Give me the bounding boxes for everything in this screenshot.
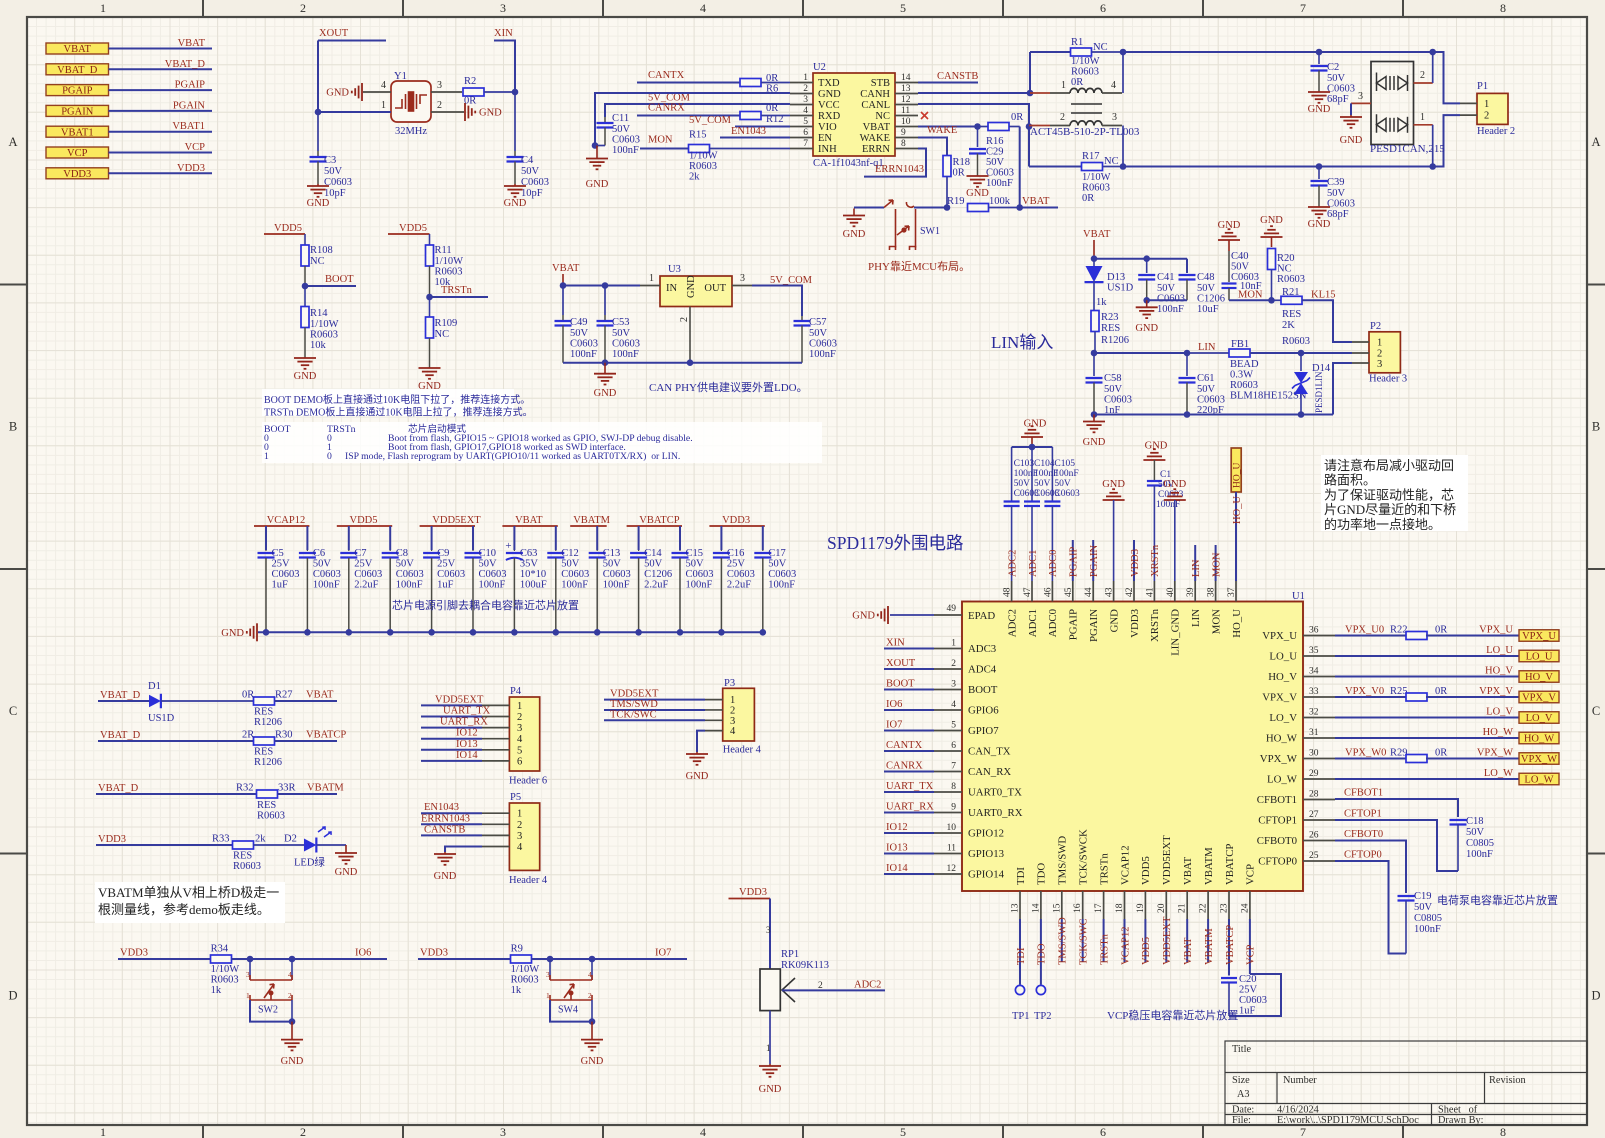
resistor R15	[689, 145, 710, 153]
svg-text:C18: C18	[1466, 816, 1484, 827]
svg-text:+: +	[505, 540, 511, 552]
svg-text:R21: R21	[1282, 287, 1300, 298]
svg-text:VBAT: VBAT	[515, 515, 543, 526]
svg-text:VDD5: VDD5	[274, 223, 302, 234]
svg-text:4: 4	[700, 1125, 706, 1138]
wire decoupling ground rail	[258, 631, 763, 633]
svg-text:VPX_U: VPX_U	[1479, 625, 1513, 636]
svg-text:C0603: C0603	[1054, 489, 1080, 499]
svg-text:PGAIN: PGAIN	[61, 107, 94, 118]
pin 6 of U2 (EN)	[790, 137, 813, 139]
svg-text:17: 17	[1094, 903, 1104, 913]
junction cap ground	[304, 629, 311, 636]
svg-text:5V_COM: 5V_COM	[770, 275, 813, 286]
svg-text:C0603: C0603	[354, 569, 382, 580]
wire VDD3 LED row	[96, 844, 232, 846]
ground GND at EPAD	[887, 606, 889, 624]
wire to P1 pin1	[1433, 52, 1460, 103]
svg-text:GND: GND	[818, 89, 841, 100]
junction XIN/R2	[512, 89, 519, 96]
resistor R23	[1091, 311, 1099, 332]
resistor R9	[511, 955, 532, 963]
svg-text:VBAT: VBAT	[306, 690, 334, 701]
pin 2 of P4	[482, 716, 509, 718]
junction cap ground	[718, 629, 725, 636]
wire R34 to IO6	[232, 958, 387, 960]
svg-text:1: 1	[517, 809, 522, 820]
junction rail C61	[1184, 411, 1191, 418]
svg-text:4: 4	[730, 726, 736, 737]
svg-text:GND: GND	[335, 867, 358, 878]
svg-text:WAKE: WAKE	[860, 133, 890, 144]
svg-text:VBATM: VBATM	[307, 783, 344, 794]
svg-text:IO14: IO14	[456, 750, 478, 761]
svg-text:EN1043: EN1043	[731, 126, 766, 137]
svg-text:XIN: XIN	[886, 638, 905, 649]
pin 19 of U1 (VDD5)	[1144, 891, 1146, 919]
svg-text:LED绿: LED绿	[294, 856, 325, 869]
junction cap ground	[635, 629, 642, 636]
svg-text:1: 1	[246, 991, 250, 1000]
svg-text:R1206: R1206	[254, 717, 282, 728]
wire U2 pin2 GND	[595, 93, 790, 146]
svg-text:50V: 50V	[1466, 827, 1485, 838]
svg-text:HO_V: HO_V	[1525, 672, 1553, 683]
svg-text:100uF: 100uF	[520, 580, 547, 591]
wire CFBOT1	[1335, 799, 1458, 817]
svg-text:ADC4: ADC4	[968, 664, 997, 676]
wire R17 line	[1029, 166, 1082, 168]
svg-text:TCK/SWC: TCK/SWC	[1079, 918, 1090, 965]
svg-text:2K: 2K	[1282, 320, 1295, 331]
svg-text:C0603: C0603	[272, 569, 300, 580]
resistor R12	[740, 112, 761, 120]
svg-text:VBAT: VBAT	[178, 38, 206, 49]
svg-text:C104: C104	[1034, 459, 1055, 469]
svg-text:1: 1	[1484, 99, 1489, 110]
svg-text:C14: C14	[644, 548, 662, 559]
svg-text:VCP: VCP	[185, 142, 206, 153]
svg-text:34: 34	[1309, 667, 1319, 677]
svg-text:46: 46	[1043, 587, 1053, 597]
svg-text:2k: 2k	[255, 834, 266, 845]
ground GND below C3	[317, 184, 319, 186]
capacitor C11	[604, 117, 606, 123]
svg-text:GND: GND	[1308, 104, 1331, 115]
wire P3 pin4 to GND	[697, 731, 705, 752]
wire U2 pin9 WAKE	[918, 138, 947, 156]
wire XOUT to U1	[884, 668, 934, 670]
svg-text:35V: 35V	[520, 559, 539, 570]
svg-text:OUT: OUT	[704, 283, 726, 294]
note drive loop (white box)	[1321, 455, 1468, 531]
port HO_W	[1519, 732, 1559, 744]
svg-text:GND: GND	[843, 229, 866, 240]
svg-text:50V: 50V	[1054, 479, 1071, 489]
svg-text:VPX_U: VPX_U	[1522, 631, 1556, 642]
svg-text:50V: 50V	[396, 559, 415, 570]
svg-text:50V: 50V	[612, 328, 631, 339]
svg-text:ADC2: ADC2	[1007, 550, 1018, 577]
wire CFTOP1	[1335, 820, 1458, 871]
svg-text:BEAD: BEAD	[1230, 359, 1259, 370]
junction BOOT	[302, 283, 309, 290]
svg-text:VDD3: VDD3	[722, 515, 750, 526]
svg-text:VDD5EXT: VDD5EXT	[610, 689, 659, 700]
svg-text:PGAIP: PGAIP	[1068, 609, 1080, 640]
svg-text:3: 3	[803, 95, 808, 105]
svg-text:IO7: IO7	[886, 720, 902, 731]
note VBATM measurement	[95, 882, 285, 923]
junction cap ground	[760, 629, 767, 636]
ground GND below R14	[304, 357, 306, 358]
svg-text:ADC1: ADC1	[1027, 609, 1039, 637]
wire CANL	[918, 104, 1029, 127]
capacitor C18	[1450, 819, 1467, 821]
svg-text:2: 2	[437, 100, 442, 111]
svg-text:ADC3: ADC3	[968, 643, 996, 655]
junction PESD pin1	[1429, 163, 1436, 170]
svg-text:VDD3: VDD3	[63, 169, 91, 180]
wire ground rail U3	[563, 362, 802, 364]
wire R6 to U2 pin1	[761, 82, 790, 84]
junction rail C53	[602, 359, 609, 366]
svg-text:R23: R23	[1101, 312, 1119, 323]
svg-text:1/10W: 1/10W	[435, 256, 464, 267]
junction D14 top	[1298, 350, 1305, 357]
wire LO_W	[1335, 778, 1519, 780]
svg-text:2.2uF: 2.2uF	[354, 580, 378, 591]
svg-text:GND: GND	[1102, 479, 1125, 490]
junction cap ground	[387, 629, 394, 636]
svg-text:C48: C48	[1197, 272, 1215, 283]
svg-text:13: 13	[1011, 903, 1021, 913]
svg-text:VBAT_D: VBAT_D	[98, 783, 139, 794]
capacitor C63	[513, 550, 515, 551]
wire IO12 to P4	[421, 738, 482, 740]
wire VBAT to U3 pin1	[563, 285, 640, 287]
svg-text:C0603: C0603	[809, 339, 837, 350]
resistor R14	[304, 286, 306, 307]
svg-text:10k: 10k	[310, 340, 327, 351]
svg-text:C15: C15	[686, 548, 704, 559]
svg-text:NC: NC	[1277, 264, 1292, 275]
wire IO6 to U1	[884, 709, 934, 711]
svg-text:0R: 0R	[1071, 77, 1083, 88]
svg-text:CFTOP1: CFTOP1	[1344, 809, 1382, 820]
wire IO14 to P4	[421, 760, 482, 762]
svg-text:LIN: LIN	[1190, 609, 1202, 627]
wire R1 line to C2	[1123, 51, 1319, 53]
svg-text:50V: 50V	[479, 559, 498, 570]
svg-text:18: 18	[1115, 903, 1125, 913]
port HO_V	[1519, 671, 1559, 683]
ground GND at U1 pin40 (LIN_GND)	[1174, 499, 1176, 501]
wire net VBAT1	[109, 131, 213, 133]
wire BOOT to U1	[884, 689, 934, 691]
svg-text:R0603: R0603	[211, 975, 239, 986]
svg-text:CAN_RX: CAN_RX	[968, 766, 1011, 778]
junction C41 bottom	[1143, 297, 1150, 304]
svg-text:VBAT: VBAT	[64, 44, 92, 55]
svg-text:P3: P3	[724, 678, 735, 689]
ground GND below U3 rail	[604, 363, 606, 374]
svg-text:HO_V: HO_V	[1268, 671, 1297, 683]
svg-text:C0603: C0603	[612, 135, 640, 146]
svg-text:6: 6	[1100, 1, 1106, 15]
wire net VBATCP below U1	[1228, 919, 1230, 976]
svg-text:100nF: 100nF	[1156, 500, 1180, 510]
svg-text:2: 2	[730, 705, 735, 716]
svg-text:LO_U: LO_U	[1486, 645, 1513, 656]
svg-text:R14: R14	[310, 308, 328, 319]
pin 46 of U1 (ADC0)	[1051, 581, 1053, 602]
svg-text:1uF: 1uF	[272, 580, 289, 591]
pin 1 of U2 (TXD)	[790, 82, 813, 84]
svg-text:3: 3	[246, 970, 250, 979]
svg-text:HO_W: HO_W	[1483, 727, 1513, 738]
pin 43 of U1 (GND)	[1113, 581, 1115, 602]
svg-text:11: 11	[901, 106, 910, 116]
svg-text:SW1: SW1	[920, 226, 940, 237]
capacitor C7	[348, 550, 350, 551]
svg-text:LO_W: LO_W	[1524, 775, 1553, 786]
svg-text:50V: 50V	[1327, 188, 1346, 199]
svg-text:VPX_W: VPX_W	[1521, 754, 1557, 765]
svg-text:根测量线，参考demo板走线。: 根测量线，参考demo板走线。	[98, 902, 270, 917]
svg-text:LIN_GND: LIN_GND	[1170, 609, 1182, 656]
svg-text:GND: GND	[326, 88, 349, 99]
svg-text:8: 8	[951, 782, 956, 792]
pin 4 of P4	[482, 738, 509, 740]
svg-text:R34: R34	[211, 944, 229, 955]
svg-text:ERRN1043: ERRN1043	[875, 164, 924, 175]
capacitor C103	[1011, 447, 1013, 502]
svg-text:片GND尽量近的和下桥: 片GND尽量近的和下桥	[1324, 502, 1456, 517]
svg-text:C0805: C0805	[1466, 838, 1494, 849]
svg-text:25V: 25V	[437, 559, 456, 570]
svg-text:C0603: C0603	[1158, 490, 1184, 500]
pin 22 of U1 (VBATM)	[1207, 891, 1209, 919]
svg-text:CAN_TX: CAN_TX	[968, 746, 1011, 758]
pin 40 of U1 (LIN_GND)	[1174, 581, 1176, 602]
svg-text:1k: 1k	[1096, 297, 1107, 308]
svg-text:C12: C12	[561, 548, 579, 559]
svg-text:MON: MON	[1238, 290, 1263, 301]
pin 39 of U1 (LIN)	[1194, 581, 1196, 602]
switch SW2	[249, 959, 251, 980]
svg-text:MON: MON	[648, 135, 673, 146]
svg-text:14: 14	[901, 73, 911, 83]
wire IO14 to U1	[884, 873, 934, 875]
wire UART_TX to P4	[421, 716, 482, 718]
svg-text:20: 20	[1157, 903, 1167, 913]
svg-text:RES: RES	[254, 707, 273, 718]
junction R18/R19	[944, 204, 951, 211]
svg-text:GND: GND	[686, 771, 709, 782]
pin 3 of P4	[482, 727, 509, 729]
ground GND left of Y1	[361, 83, 363, 101]
svg-text:U2: U2	[813, 62, 826, 73]
svg-text:P1: P1	[1477, 81, 1488, 92]
svg-text:6: 6	[1100, 1125, 1106, 1138]
svg-text:29: 29	[1309, 769, 1319, 779]
pin 24 of U1 (VCP)	[1249, 891, 1251, 919]
wire VDD5EXT rail drops	[431, 526, 433, 550]
resistor R11	[426, 245, 434, 266]
pin 5 of U2 (VIO)	[790, 126, 813, 128]
svg-text:50V: 50V	[809, 328, 828, 339]
svg-text:C0603: C0603	[1157, 294, 1185, 305]
svg-text:VDD5EXT: VDD5EXT	[432, 515, 481, 526]
pin 7 of U1 (CAN_RX)	[934, 771, 962, 773]
svg-text:GND: GND	[1145, 441, 1168, 452]
wire VBAT rail drops	[513, 526, 515, 550]
svg-text:4: 4	[803, 106, 808, 116]
capacitor C57	[801, 316, 803, 321]
svg-text:GND: GND	[1024, 419, 1047, 430]
wire VPX_V0	[1335, 696, 1407, 698]
wire R1 line	[1030, 51, 1071, 53]
transformer ACT45B top coil	[1070, 88, 1102, 93]
svg-text:VBATM: VBATM	[573, 515, 610, 526]
wire net VBAT_D	[109, 68, 213, 70]
svg-text:LO_U: LO_U	[1269, 651, 1297, 663]
wiper arrow RP1	[782, 978, 795, 1002]
svg-text:XOUT: XOUT	[886, 658, 916, 669]
pin 41 of U1 (XRSTn)	[1153, 581, 1155, 602]
wire VDD3 rail drops	[720, 526, 722, 550]
wire VPX_W to port	[1426, 758, 1519, 760]
svg-text:GND: GND	[504, 198, 527, 209]
svg-text:ERRN1043: ERRN1043	[421, 813, 470, 824]
resistor R17	[1082, 163, 1103, 171]
wire R27 to VBAT	[275, 700, 338, 702]
pin 5 of P4	[482, 749, 509, 751]
svg-text:1k: 1k	[211, 985, 222, 996]
svg-text:3: 3	[766, 925, 771, 935]
ground GND below C39	[1318, 206, 1320, 207]
svg-text:1: 1	[381, 100, 386, 111]
ground GND right of Y1	[464, 103, 466, 121]
svg-text:21: 21	[1178, 903, 1188, 913]
svg-text:VBATM: VBATM	[1204, 928, 1215, 965]
svg-text:0R: 0R	[953, 168, 965, 179]
svg-text:3: 3	[500, 1125, 506, 1138]
svg-text:0R: 0R	[242, 690, 254, 701]
wire LIN stub (pin39)	[1194, 545, 1196, 581]
svg-text:路面积。: 路面积。	[1324, 473, 1376, 488]
wire IO7 to U1	[884, 730, 934, 732]
wire VBAT right	[1020, 207, 1058, 209]
svg-text:25V: 25V	[1239, 985, 1258, 996]
svg-text:IO7: IO7	[655, 948, 671, 959]
svg-text:3: 3	[500, 1, 506, 15]
svg-text:VDD5: VDD5	[1140, 856, 1152, 885]
svg-text:5: 5	[803, 117, 808, 127]
svg-text:PGAIP: PGAIP	[62, 86, 93, 97]
svg-text:ADC0: ADC0	[1047, 609, 1059, 637]
svg-text:1uF: 1uF	[1239, 1006, 1256, 1017]
junction LIN/R23	[1091, 350, 1098, 357]
wire RP1 wiper ADC2	[782, 989, 885, 991]
svg-text:HO_U: HO_U	[1233, 463, 1243, 488]
svg-text:R0603: R0603	[257, 811, 285, 822]
svg-text:WAKE: WAKE	[927, 125, 957, 136]
svg-text:电荷泵电容靠近芯片放置: 电荷泵电容靠近芯片放置	[1437, 893, 1558, 907]
wire CFTOP0	[1335, 861, 1406, 954]
svg-text:R0603: R0603	[310, 330, 338, 341]
junction C41 top	[1143, 255, 1150, 262]
svg-text:R25: R25	[1390, 686, 1408, 697]
svg-text:Size: Size	[1232, 1075, 1250, 1086]
wire VDD3 to RP1	[769, 899, 771, 970]
svg-text:10uF: 10uF	[1197, 304, 1219, 315]
svg-text:C105: C105	[1054, 459, 1075, 469]
svg-text:24: 24	[1240, 903, 1250, 913]
transformer ACT45B pin1	[1030, 92, 1050, 94]
svg-text:49: 49	[947, 604, 957, 614]
transformer core	[1071, 103, 1102, 105]
pin 2 of P3	[705, 709, 723, 711]
svg-text:VBAT: VBAT	[552, 263, 580, 274]
pin 4 of P5	[482, 846, 509, 848]
wire HO_V	[1335, 676, 1519, 678]
svg-text:STB: STB	[871, 78, 890, 89]
svg-text:VDD5EXT: VDD5EXT	[1161, 835, 1173, 885]
pin 1 of Y1	[318, 111, 391, 113]
test point TP1	[1015, 985, 1024, 994]
wire net VCAP12 below U1	[1124, 919, 1126, 962]
wire UART_RX to U1	[884, 812, 934, 814]
svg-text:SW2: SW2	[258, 1005, 278, 1016]
pin 37 of U1 (HO_U)	[1235, 581, 1237, 602]
svg-text:TRSTn: TRSTn	[1099, 933, 1110, 965]
svg-text:A3: A3	[1237, 1089, 1250, 1100]
svg-text:PGAIN: PGAIN	[173, 100, 206, 111]
wire net VBAT	[109, 48, 213, 50]
ground GND below C29	[977, 175, 979, 176]
wire VDD3 SW4	[418, 958, 511, 960]
svg-text:ISP mode, Flash reprogram by U: ISP mode, Flash reprogram by UART(GPIO10…	[345, 451, 680, 462]
svg-text:VPX_V0: VPX_V0	[1345, 686, 1384, 697]
svg-text:7: 7	[951, 762, 956, 772]
wire CANH up to R1 line	[1029, 52, 1031, 93]
svg-text:C0603: C0603	[479, 569, 507, 580]
transformer pin 4	[1102, 92, 1122, 94]
svg-text:50V: 50V	[1327, 73, 1346, 84]
svg-text:UART_RX: UART_RX	[886, 802, 934, 813]
svg-text:25V: 25V	[727, 559, 746, 570]
junction C61	[1184, 350, 1191, 357]
wire net PGAIN	[109, 110, 213, 112]
port VDD3	[46, 168, 109, 179]
pin 16 of U1 (TCK/SWCK)	[1082, 891, 1084, 919]
svg-text:PESD1LIN: PESD1LIN	[1314, 371, 1324, 413]
pin 33 of U1 (VPX_V)	[1303, 696, 1335, 698]
svg-text:7: 7	[1300, 1, 1306, 15]
svg-text:Revision: Revision	[1489, 1075, 1526, 1086]
capacitor C2	[1318, 52, 1320, 64]
wire VBATM rail drops	[596, 526, 598, 550]
wire VBAT_D row3	[96, 793, 257, 795]
junction VBAT/D13	[1091, 255, 1098, 262]
svg-text:32MHz: 32MHz	[395, 126, 427, 137]
pin 26 of U1 (CFBOT0)	[1303, 840, 1335, 842]
svg-text:C0603: C0603	[612, 339, 640, 350]
svg-text:C3: C3	[324, 155, 336, 166]
svg-text:TDO: TDO	[1036, 863, 1048, 885]
